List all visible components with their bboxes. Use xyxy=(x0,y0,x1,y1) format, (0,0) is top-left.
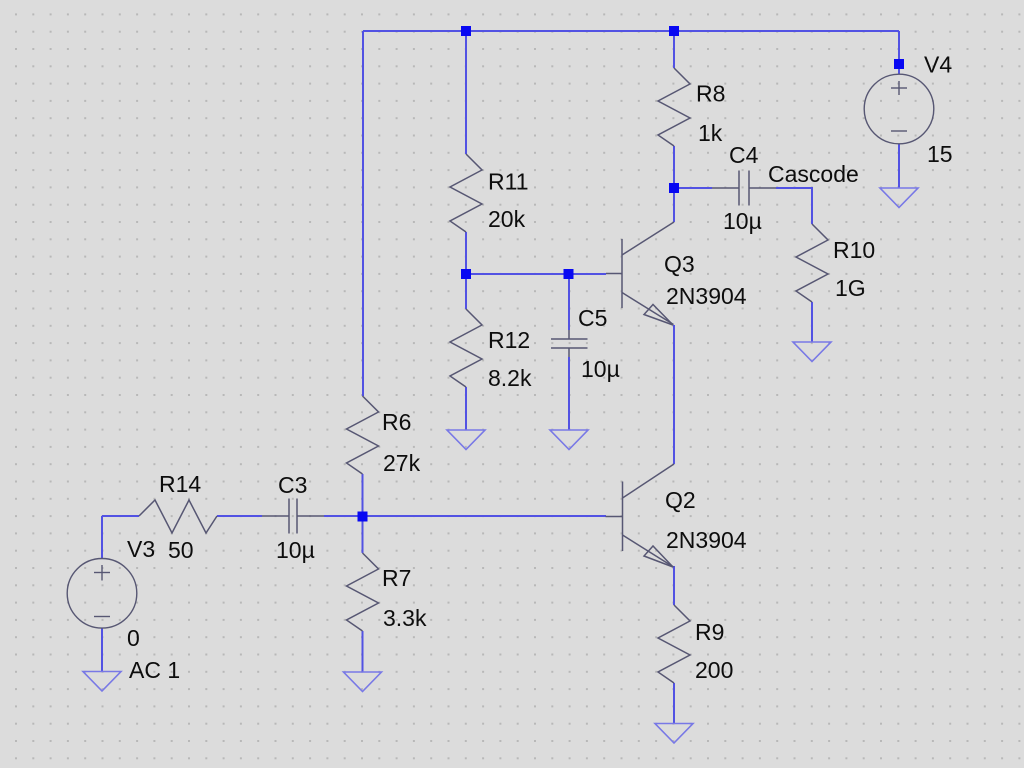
svg-text:R6: R6 xyxy=(382,409,411,435)
svg-text:20k: 20k xyxy=(488,206,526,232)
svg-text:8.2k: 8.2k xyxy=(488,365,532,391)
voltage source V3 xyxy=(67,559,137,629)
svg-text:2N3904: 2N3904 xyxy=(666,527,747,553)
ground under C5 xyxy=(550,430,588,450)
wire R12 top feed xyxy=(465,274,467,309)
svg-text:10µ: 10µ xyxy=(276,537,315,563)
svg-text:3.3k: 3.3k xyxy=(383,605,427,631)
junction top rail R8 xyxy=(669,26,679,36)
wire Q3 emitter to Q2 collector xyxy=(673,325,675,464)
transistor Q2 xyxy=(606,464,675,567)
wire R11 bottom to node xyxy=(465,232,467,274)
svg-text:1k: 1k xyxy=(698,120,723,146)
wire R8 bottom to node xyxy=(673,146,675,188)
svg-text:Q2: Q2 xyxy=(665,487,696,513)
svg-text:V3: V3 xyxy=(127,536,155,562)
svg-text:C5: C5 xyxy=(578,305,607,331)
svg-text:R10: R10 xyxy=(833,237,875,263)
capacitor C4 xyxy=(712,171,776,206)
ground under R7 xyxy=(344,672,382,692)
svg-text:Q3: Q3 xyxy=(664,251,695,277)
wire V3 bottom to ground xyxy=(101,628,103,671)
junction node R6 R7 input xyxy=(358,512,368,522)
svg-text:15: 15 xyxy=(927,141,953,167)
resistor R8 xyxy=(658,68,690,146)
wire R7 to ground xyxy=(362,631,364,672)
wire R6 to node xyxy=(362,474,364,516)
wire C4 to R10 corner xyxy=(776,188,812,224)
wire R11 top feed xyxy=(465,31,467,154)
junction node R8 C4 xyxy=(669,183,679,193)
svg-text:AC 1: AC 1 xyxy=(129,657,180,683)
wire R10 to ground xyxy=(811,302,813,342)
svg-text:27k: 27k xyxy=(383,450,421,476)
svg-text:Cascode: Cascode xyxy=(768,161,859,187)
wire node to R7 xyxy=(362,516,364,553)
junction node R11 R12 xyxy=(461,269,471,279)
wire V3 top feed xyxy=(101,516,103,558)
capacitor C3 xyxy=(262,499,324,534)
ground under R9 xyxy=(655,724,693,744)
wire node to Q2 base xyxy=(362,515,606,517)
svg-text:0: 0 xyxy=(127,625,140,651)
wire top rail xyxy=(363,30,899,32)
resistor R11 xyxy=(450,154,482,232)
resistor R10 xyxy=(796,224,828,302)
transistor Q3 xyxy=(606,222,674,325)
svg-text:10µ: 10µ xyxy=(723,208,762,234)
wire left vertical to R6 xyxy=(362,31,364,396)
svg-text:50: 50 xyxy=(168,537,194,563)
junction V4 plus terminal xyxy=(894,59,904,69)
resistor R7 xyxy=(347,553,379,631)
svg-text:R12: R12 xyxy=(488,327,530,353)
resistor R9 xyxy=(658,605,690,683)
capacitor C5 xyxy=(551,330,588,357)
svg-text:1G: 1G xyxy=(835,275,866,301)
svg-text:R8: R8 xyxy=(696,81,725,107)
junction top rail R11 xyxy=(461,26,471,36)
wire node to Q3 collector xyxy=(673,188,675,222)
voltage source V4 xyxy=(864,74,934,144)
wire node row R11 to C5 xyxy=(466,273,568,275)
wire C5 top feed xyxy=(568,274,570,330)
wire C5 node to Q3 base xyxy=(568,273,606,275)
ground under V4 xyxy=(880,188,918,208)
svg-text:10µ: 10µ xyxy=(581,356,620,382)
svg-text:C4: C4 xyxy=(729,142,759,168)
wire R12 to ground xyxy=(465,387,467,430)
svg-text:R7: R7 xyxy=(382,565,411,591)
wire V4 bottom to ground xyxy=(898,144,900,188)
ground under V3 xyxy=(83,672,121,692)
resistor R14 xyxy=(139,500,217,533)
svg-text:R11: R11 xyxy=(488,169,529,195)
ground under R12 xyxy=(447,430,485,450)
wire R8 top feed xyxy=(673,31,675,68)
wire R14 to C3 xyxy=(217,515,262,517)
svg-text:C3: C3 xyxy=(278,472,307,498)
wire C3 to node xyxy=(324,515,362,517)
resistor R6 xyxy=(347,396,379,474)
ground under R10 xyxy=(793,342,831,362)
svg-text:R9: R9 xyxy=(695,619,724,645)
wire V4 top xyxy=(898,31,900,74)
svg-text:2N3904: 2N3904 xyxy=(666,283,747,309)
svg-text:V4: V4 xyxy=(924,52,952,78)
wire C5 to ground xyxy=(568,357,570,430)
svg-text:R14: R14 xyxy=(159,471,201,497)
wire node to C4 xyxy=(674,187,712,189)
wire V3 to R14 xyxy=(102,515,139,517)
wire Q2 emitter to R9 xyxy=(673,566,675,605)
resistor R12 xyxy=(450,309,482,387)
wire R9 to ground xyxy=(673,683,675,723)
svg-text:200: 200 xyxy=(695,657,733,683)
junction node C5 xyxy=(564,269,574,279)
